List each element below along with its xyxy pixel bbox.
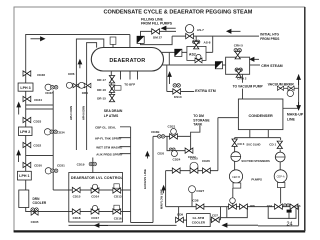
svg-text:HPH 6 DRN: HPH 6 DRN bbox=[82, 106, 86, 120]
svg-text:EXTRA STM: EXTRA STM bbox=[195, 89, 216, 93]
svg-text:DR-16: DR-16 bbox=[97, 88, 106, 92]
svg-text:MAKE-UP: MAKE-UP bbox=[287, 112, 304, 116]
svg-text:DR9: DR9 bbox=[82, 91, 88, 95]
svg-text:AS2: AS2 bbox=[189, 52, 196, 56]
svg-text:CD9: CD9 bbox=[177, 213, 183, 217]
svg-text:COOLER: COOLER bbox=[192, 221, 206, 225]
svg-text:FROM PRDS: FROM PRDS bbox=[260, 37, 279, 41]
svg-text:CONDENSER: CONDENSER bbox=[248, 114, 273, 118]
svg-text:CD30: CD30 bbox=[34, 164, 42, 168]
svg-text:CD16: CD16 bbox=[114, 216, 122, 220]
svg-text:HPH 4 DRN: HPH 4 DRN bbox=[69, 106, 73, 120]
svg-text:CD37: CD37 bbox=[45, 91, 53, 95]
svg-text:FROM FILL PUMPS: FROM FILL PUMPS bbox=[141, 22, 173, 26]
svg-text:DR-15: DR-15 bbox=[97, 97, 106, 101]
svg-text:INITIAL HTG: INITIAL HTG bbox=[260, 32, 279, 36]
svg-text:TO BFP: TO BFP bbox=[124, 82, 135, 86]
svg-text:CEP-B: CEP-B bbox=[232, 175, 240, 179]
svg-text:CD25: CD25 bbox=[190, 156, 198, 160]
svg-text:DR6: DR6 bbox=[68, 72, 74, 76]
svg-text:CEP-A: CEP-A bbox=[277, 175, 285, 179]
svg-text:CD19: CD19 bbox=[77, 163, 85, 167]
svg-text:CRH 2: CRH 2 bbox=[237, 76, 246, 80]
svg-text:AUX PRDS SPRAY: AUX PRDS SPRAY bbox=[96, 153, 122, 157]
svg-text:CD7: CD7 bbox=[212, 213, 218, 217]
svg-text:CD26: CD26 bbox=[202, 159, 210, 163]
svg-text:TANK: TANK bbox=[193, 123, 203, 127]
svg-text:24: 24 bbox=[287, 221, 293, 227]
svg-text:LPH 3: LPH 3 bbox=[20, 86, 30, 90]
svg-text:CD14: CD14 bbox=[91, 194, 99, 198]
svg-text:CONDENSATE CYCLE & DEAERATOR P: CONDENSATE CYCLE & DEAERATOR PEGGING STE… bbox=[104, 9, 253, 15]
svg-text:CD27: CD27 bbox=[196, 189, 204, 193]
svg-text:CD15: CD15 bbox=[73, 194, 81, 198]
svg-text:CD20: CD20 bbox=[157, 151, 164, 155]
svg-text:CD33: CD33 bbox=[33, 119, 41, 123]
svg-text:KS10: KS10 bbox=[174, 95, 182, 99]
svg-text:SUC GLND: SUC GLND bbox=[246, 142, 260, 146]
svg-text:COOLER: COOLER bbox=[33, 201, 47, 205]
svg-text:SEA DRAIN: SEA DRAIN bbox=[104, 109, 123, 113]
svg-text:SUCTION STRAINERS: SUCTION STRAINERS bbox=[241, 159, 270, 163]
svg-text:MIN FLOW LINE: MIN FLOW LINE bbox=[159, 189, 163, 209]
svg-text:DEAERATOR: DEAERATOR bbox=[109, 58, 145, 64]
svg-text:WET STM WASHG: WET STM WASHG bbox=[96, 145, 123, 149]
svg-text:CD13: CD13 bbox=[114, 195, 122, 199]
svg-text:DR-17: DR-17 bbox=[97, 78, 106, 82]
svg-text:CBP GL. SEAL: CBP GL. SEAL bbox=[95, 126, 116, 130]
svg-text:CD5: CD5 bbox=[250, 204, 256, 208]
svg-text:CD 3: CD 3 bbox=[237, 142, 244, 146]
svg-text:CD38: CD38 bbox=[37, 73, 45, 77]
svg-text:CRH 5: CRH 5 bbox=[234, 43, 243, 47]
svg-text:DEAERATOR LVL CONTROL: DEAERATOR LVL CONTROL bbox=[71, 176, 124, 180]
svg-text:EXCESS LINE: EXCESS LINE bbox=[143, 169, 147, 189]
svg-text:CD3B: CD3B bbox=[151, 130, 160, 134]
svg-text:CD8: CD8 bbox=[192, 199, 198, 203]
svg-text:HP-FL TNK SPRAY: HP-FL TNK SPRAY bbox=[95, 137, 122, 141]
svg-text:CD18: CD18 bbox=[73, 216, 81, 220]
svg-text:CD32: CD32 bbox=[33, 144, 41, 148]
svg-text:AS-8: AS-8 bbox=[204, 40, 211, 44]
svg-text:CRH STEAM: CRH STEAM bbox=[261, 64, 282, 68]
svg-text:CD24: CD24 bbox=[173, 157, 181, 161]
svg-text:GL.STM: GL.STM bbox=[193, 216, 205, 220]
svg-text:VACUUM BRKR: VACUUM BRKR bbox=[268, 82, 295, 86]
svg-text:CD31: CD31 bbox=[57, 164, 65, 168]
svg-text:LP ATMS: LP ATMS bbox=[104, 114, 119, 118]
svg-text:CD34: CD34 bbox=[34, 98, 42, 102]
svg-text:LPH 1: LPH 1 bbox=[19, 174, 29, 178]
svg-text:DM 27: DM 27 bbox=[153, 35, 162, 39]
svg-text:CD17: CD17 bbox=[91, 216, 99, 220]
svg-text:LINE: LINE bbox=[287, 117, 296, 121]
svg-text:CD 1: CD 1 bbox=[269, 143, 276, 147]
svg-text:CD35: CD35 bbox=[31, 220, 39, 224]
svg-text:TO VACUUM PUMP: TO VACUUM PUMP bbox=[233, 84, 264, 88]
svg-text:AS-7: AS-7 bbox=[197, 28, 204, 32]
svg-text:CD6: CD6 bbox=[295, 204, 301, 208]
svg-text:PUMPS: PUMPS bbox=[251, 178, 262, 182]
svg-text:CD21: CD21 bbox=[168, 124, 176, 128]
svg-text:CD4: CD4 bbox=[267, 204, 273, 208]
svg-text:CD34: CD34 bbox=[57, 130, 65, 134]
svg-text:LPH 2: LPH 2 bbox=[20, 130, 30, 134]
